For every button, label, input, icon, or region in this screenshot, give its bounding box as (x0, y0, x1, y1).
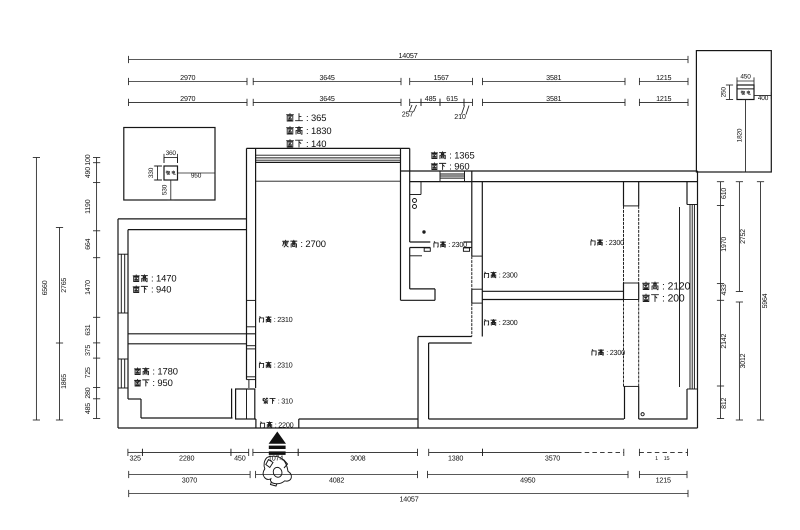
label bedroom2 window (135, 366, 178, 377)
svg-text:664: 664 (85, 238, 92, 249)
inner left wall (128, 230, 233, 418)
svg-text:: 2310: : 2310 (274, 361, 293, 370)
svg-text:: 1830: : 1830 (306, 125, 331, 136)
svg-text:2142: 2142 (721, 334, 728, 349)
svg-text:375: 375 (85, 345, 92, 356)
top wall right section (401, 171, 698, 182)
svg-text:: 140: : 140 (306, 138, 326, 149)
label entry door (260, 420, 293, 429)
balcony drain (641, 413, 644, 416)
label room height (283, 238, 326, 249)
wall bedrooms right / balcony (624, 182, 639, 419)
window kitchen top (440, 171, 465, 182)
svg-text:2765: 2765 (61, 278, 68, 293)
outer left wall (117, 219, 119, 428)
svg-text:530: 530 (161, 184, 168, 195)
svg-text:: 2300: : 2300 (605, 238, 624, 247)
bedroom3 nook walls (418, 337, 472, 429)
svg-text:: 2200: : 2200 (275, 420, 294, 429)
svg-text:1215: 1215 (656, 94, 671, 103)
svg-text:3581: 3581 (546, 73, 561, 82)
dim col right overall 5964 (757, 182, 769, 420)
svg-text:3645: 3645 (319, 94, 334, 103)
svg-text:325: 325 (129, 454, 141, 463)
kitchen gas pipes (413, 199, 417, 209)
svg-text:1567: 1567 (433, 73, 448, 82)
dim 360 (164, 150, 178, 163)
window balcony right (687, 182, 698, 419)
svg-text:360: 360 (166, 150, 177, 157)
dim row top 3 (129, 94, 689, 106)
svg-text:1820: 1820 (736, 128, 743, 142)
label kitchen window (431, 150, 474, 161)
right outer wall (697, 171, 699, 428)
svg-text:: 2300: : 2300 (499, 271, 518, 280)
dim row top overall 14057 (129, 51, 689, 63)
dim 330 (148, 166, 162, 180)
dim col right detailed (717, 182, 728, 419)
bedroom block top wall (118, 219, 247, 230)
entry arrow (269, 432, 286, 455)
label beam (263, 397, 293, 406)
label window top (365/1830/140) (287, 112, 327, 123)
svg-text:: 365: : 365 (306, 112, 326, 123)
svg-text:2970: 2970 (180, 94, 195, 103)
wall kitchen right / bedrooms left (472, 171, 483, 337)
kitchen floor drain (422, 230, 425, 233)
bedroom3 / balcony floor bottom (429, 418, 688, 420)
dim 950 (178, 169, 216, 179)
svg-text:: 310: : 310 (278, 397, 293, 406)
svg-text:3570: 3570 (545, 454, 560, 463)
svg-text:1970: 1970 (721, 237, 728, 252)
bottom inner wall / entry door (254, 419, 418, 428)
strong-electric box TR (737, 85, 754, 100)
wall step kitchen left (401, 148, 436, 300)
svg-text:: 2300: : 2300 (499, 318, 518, 327)
svg-text:3581: 3581 (546, 94, 561, 103)
svg-text:: 2300: : 2300 (606, 348, 625, 357)
svg-text:: 1470: : 1470 (151, 273, 176, 284)
dim 1820 (736, 100, 749, 173)
svg-text:: 960: : 960 (449, 161, 469, 172)
svg-text:615: 615 (446, 94, 458, 103)
svg-text:6560: 6560 (42, 280, 49, 295)
wall left of living room / bedroom1 right (247, 148, 256, 388)
dim row bottom 2 (129, 471, 687, 485)
svg-text:950: 950 (191, 173, 202, 180)
balcony inner rail line (679, 207, 681, 387)
svg-text:4082: 4082 (329, 476, 344, 485)
svg-text:280: 280 (85, 387, 92, 398)
svg-text:: 2310: : 2310 (274, 315, 293, 324)
svg-text:5964: 5964 (762, 293, 769, 308)
leader 210 (454, 106, 469, 122)
window bedroom1 left (118, 254, 128, 313)
svg-text:485: 485 (85, 403, 92, 414)
svg-text:: 1780: : 1780 (152, 366, 177, 377)
svg-text:: 940: : 940 (151, 284, 171, 295)
svg-text:450: 450 (234, 454, 246, 463)
wall top window strip (living balcony) (247, 148, 410, 162)
svg-text:: 950: : 950 (152, 377, 172, 388)
wall between right bedrooms (482, 291, 623, 299)
bottom outer wall (118, 427, 698, 429)
kitchen shaft corner (410, 182, 421, 195)
leader 257 (402, 105, 417, 119)
svg-text:631: 631 (85, 324, 92, 335)
svg-text:: 1365: : 1365 (449, 150, 474, 161)
dim 250 (720, 85, 733, 100)
svg-text:14057: 14057 (399, 51, 418, 60)
svg-text:330: 330 (148, 167, 155, 178)
dim 450 (737, 73, 754, 84)
svg-text:3070: 3070 (182, 476, 197, 485)
top-left detail box (124, 128, 215, 201)
dim col left detailed (85, 154, 100, 418)
svg-text:: 2120: : 2120 (662, 282, 691, 293)
svg-text:2970: 2970 (180, 73, 195, 82)
label bedroom1 window (133, 273, 176, 284)
svg-text:1190: 1190 (85, 199, 92, 214)
svg-text:812: 812 (721, 397, 728, 408)
svg-text:610: 610 (721, 188, 728, 199)
beam line under balcony window (256, 180, 401, 182)
svg-text:485: 485 (425, 94, 437, 103)
label balcony window (643, 282, 691, 293)
dim row top 2 (129, 73, 689, 85)
dim col left 6560 (33, 158, 49, 421)
svg-text:3645: 3645 (319, 73, 334, 82)
dim row bottom 3 overall 14057 (129, 490, 688, 504)
svg-text:400: 400 (758, 95, 769, 102)
kitchen bottom wall + door (410, 242, 472, 256)
svg-text:250: 250 (720, 87, 727, 98)
svg-text:1215: 1215 (656, 73, 671, 82)
dim 400 (754, 92, 771, 102)
svg-text:: 2300: : 2300 (448, 240, 467, 249)
top-right detail box (696, 51, 771, 172)
svg-text:14057: 14057 (400, 495, 419, 504)
svg-text:450: 450 (740, 73, 751, 80)
svg-text:: 200: : 200 (662, 294, 685, 305)
dim 530 (161, 180, 174, 200)
svg-text:2752: 2752 (740, 229, 747, 244)
strong-electric box TL (164, 166, 178, 180)
svg-text:: 2700: : 2700 (300, 238, 325, 249)
door labels (434, 240, 467, 249)
dim row bottom 1 (128, 449, 688, 463)
wall between bedroom1 and bedroom2 (128, 334, 256, 344)
svg-text:1470: 1470 (85, 280, 92, 295)
svg-text:15: 15 (664, 456, 670, 462)
window bedroom2 left (118, 359, 128, 388)
svg-text:2280: 2280 (179, 454, 194, 463)
svg-text:490: 490 (85, 167, 92, 178)
svg-text:1215: 1215 (656, 476, 671, 485)
entry closet (232, 389, 255, 420)
svg-text:257: 257 (402, 110, 414, 119)
person figure at entry (263, 456, 291, 486)
svg-text:433: 433 (721, 284, 728, 295)
svg-text:210: 210 (454, 112, 466, 121)
svg-text:3008: 3008 (350, 454, 365, 463)
svg-text:100: 100 (85, 154, 92, 165)
svg-text:725: 725 (85, 367, 92, 378)
dim col right 2752/3012 (736, 182, 747, 420)
svg-text:3012: 3012 (740, 353, 747, 368)
svg-text:1865: 1865 (61, 374, 68, 389)
dim col left 2765/1865 (56, 228, 68, 421)
svg-text:1: 1 (655, 456, 658, 462)
svg-text:1380: 1380 (448, 454, 463, 463)
svg-text:4950: 4950 (520, 476, 535, 485)
